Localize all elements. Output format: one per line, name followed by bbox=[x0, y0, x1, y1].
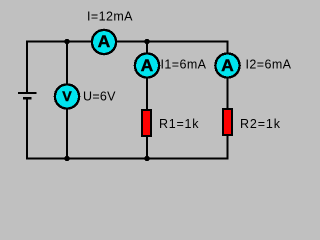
svg-text:U=6V: U=6V bbox=[83, 89, 116, 103]
ammeter A (main) bbox=[92, 30, 116, 54]
wire left vertical lower (battery bottom lead) bbox=[26, 100, 28, 160]
svg-text:R2=1k: R2=1k bbox=[240, 117, 281, 131]
wire top rail bbox=[26, 41, 229, 43]
wire voltmeter branch bbox=[66, 42, 68, 159]
svg-text:I=12mA: I=12mA bbox=[87, 10, 133, 24]
resistor R1 bbox=[141, 109, 152, 137]
wire bottom rail bbox=[26, 158, 229, 160]
svg-text:I1=6mA: I1=6mA bbox=[161, 58, 207, 72]
battery B1 bbox=[18, 92, 37, 99]
ammeter A1 bbox=[135, 53, 159, 77]
wire branch 2 (R2) bbox=[227, 41, 229, 159]
node junction dot bottom voltmeter bbox=[64, 156, 69, 161]
svg-text:A: A bbox=[98, 33, 111, 51]
svg-text:I2=6mA: I2=6mA bbox=[246, 58, 292, 72]
wire branch 1 (R1) bbox=[146, 42, 148, 159]
svg-text:A: A bbox=[221, 57, 234, 75]
node junction dot top branch 1 bbox=[144, 39, 149, 44]
svg-text:R1=1k: R1=1k bbox=[159, 117, 199, 131]
svg-text:V: V bbox=[62, 89, 72, 105]
ammeter A2 bbox=[215, 53, 239, 77]
node junction dot bottom branch 1 bbox=[144, 156, 149, 161]
wire left vertical upper (battery top lead) bbox=[26, 41, 28, 93]
node junction dot top voltmeter bbox=[64, 39, 69, 44]
resistor R2 bbox=[222, 108, 233, 136]
svg-text:A: A bbox=[141, 57, 154, 75]
voltmeter V bbox=[55, 84, 79, 108]
